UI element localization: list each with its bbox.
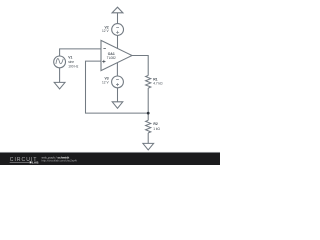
voltage source V3 (112, 76, 124, 88)
ground (flipped, top of V2) (112, 7, 123, 13)
svg-text:100 Hz: 100 Hz (68, 65, 79, 69)
wire R2 to ground (147, 133, 149, 144)
resistor R1 (146, 76, 151, 89)
footer bar (0, 152, 220, 165)
CircuitLab logo (10, 157, 39, 165)
op-amp input signs (102, 49, 106, 64)
wire feedback node to non-inverting input (86, 61, 149, 113)
ground (below V1) (54, 82, 65, 89)
wire op-amp output to R1 (132, 56, 148, 76)
svg-text:4.7 kΩ: 4.7 kΩ (153, 82, 163, 86)
resistor R2 (146, 120, 151, 133)
voltage source V1 (sine) (54, 56, 66, 68)
svg-text:http://circuitlab.com/c/ac2sp4: http://circuitlab.com/c/ac2sp4t (42, 159, 78, 163)
svg-text:V1: V1 (68, 56, 72, 60)
wire V3 to ground (117, 88, 119, 102)
wire node to R2 (147, 113, 149, 120)
voltage source V2 (112, 24, 124, 36)
svg-text:sine: sine (68, 60, 74, 64)
svg-text:1 kΩ: 1 kΩ (153, 127, 160, 131)
wire R1 to node (147, 88, 149, 113)
svg-text:12 V: 12 V (102, 81, 109, 85)
wire V1 to op-amp inverting input (60, 49, 101, 56)
wire ground to V2 (117, 13, 119, 24)
op-amp U1 OA1 (101, 40, 132, 70)
ground (below V3) (112, 102, 123, 109)
svg-text:TL082: TL082 (107, 56, 116, 60)
wire V2 to op-amp V+ pin (117, 35, 119, 48)
svg-text:12 V: 12 V (102, 29, 109, 33)
svg-text:LAB: LAB (32, 161, 39, 165)
wire op-amp V- pin to V3 (116, 63, 118, 76)
ground (below R2) (143, 143, 154, 150)
svg-text:R2: R2 (153, 122, 157, 126)
wire V1 to ground (59, 68, 61, 83)
node junction dot (147, 112, 150, 115)
